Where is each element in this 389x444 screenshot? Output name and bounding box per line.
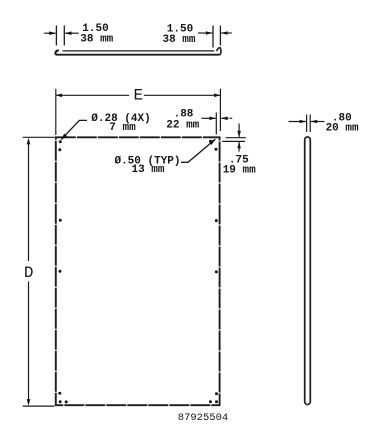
- holes: bottom-left trio: [58, 392, 61, 395]
- arrowheads: .80 dim: [300, 120, 307, 124]
- svg-text:22 mm: 22 mm: [166, 119, 199, 131]
- holes: top-left pair: [59, 140, 62, 143]
- holes: right mid: [215, 219, 218, 222]
- arrowhead: leader 0.28: [61, 134, 68, 141]
- svg-text:7 mm: 7 mm: [109, 122, 136, 134]
- svg-text:19 mm: 19 mm: [223, 164, 256, 176]
- top view left end lip: [55, 51, 58, 55]
- leader for hole callout 0.28: [62, 120, 88, 139]
- svg-text:E: E: [133, 87, 143, 105]
- dim .80/20mm: leaders: [289, 121, 306, 123]
- svg-text:D: D: [24, 264, 34, 282]
- dim D: extension lines: [23, 136, 55, 138]
- arrowheads: D dim: [27, 138, 31, 145]
- svg-text:38 mm: 38 mm: [80, 33, 113, 45]
- arrowhead: leader 0.50: [209, 139, 216, 145]
- arrowheads: .88 dim: [209, 117, 216, 121]
- arrowheads: 1.50 left dim: [49, 31, 56, 35]
- svg-text:87925504: 87925504: [178, 412, 228, 424]
- dim .75/19mm: leaders: [238, 124, 240, 137]
- dim .75/19mm: extension lines: [226, 137, 246, 139]
- dim .88/22mm: extension lines: [215, 113, 217, 135]
- svg-text:38 mm: 38 mm: [162, 34, 195, 46]
- dim 1.50/38mm right: extension lines: [212, 26, 214, 48]
- dim 1.50/38mm right: leaders: [198, 32, 212, 34]
- leader for hole callout 0.50: [181, 139, 215, 162]
- svg-text:20 mm: 20 mm: [326, 122, 359, 134]
- arrowheads: E dim: [56, 94, 63, 98]
- side view: panel profile: [305, 137, 311, 405]
- dim .80/20mm: extension lines: [306, 115, 308, 133]
- arrowheads: 1.50 right dim: [206, 31, 213, 35]
- holes: top-right pair: [209, 140, 212, 143]
- dim 1.50/38mm left: extension lines: [55, 26, 57, 46]
- dim E: extension lines: [55, 89, 57, 135]
- dim .88/22mm: leaders: [202, 117, 216, 119]
- dim D: dimension line: [28, 142, 30, 262]
- top view: panel edge profile bar: [63, 50, 215, 52]
- top view right end lip: [216, 48, 221, 55]
- front view rectangle: [56, 137, 220, 405]
- svg-text:13 mm: 13 mm: [131, 164, 164, 176]
- holes: left mid: [59, 219, 62, 222]
- arrowheads: .75 dim: [237, 131, 241, 138]
- dim 1.50/38mm left: leaders: [44, 32, 55, 34]
- holes: bottom-right trio: [215, 392, 218, 395]
- dim E: dimension line: [56, 94, 130, 96]
